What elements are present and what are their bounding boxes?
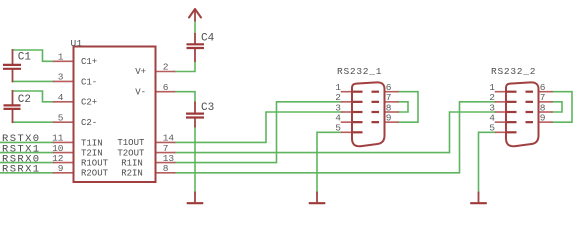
svg-text:8: 8: [163, 163, 169, 174]
svg-text:5: 5: [335, 123, 341, 134]
svg-text:R2IN: R2IN: [121, 169, 143, 179]
svg-text:1: 1: [58, 52, 64, 63]
svg-text:C1-: C1-: [81, 77, 97, 87]
svg-text:RS232_2: RS232_2: [491, 66, 536, 77]
svg-text:RSRX1: RSRX1: [2, 164, 41, 176]
svg-text:C1: C1: [18, 52, 32, 64]
svg-text:C3: C3: [201, 102, 214, 114]
svg-text:C2+: C2+: [81, 98, 97, 108]
svg-text:V-: V-: [135, 87, 146, 97]
svg-text:V+: V+: [135, 67, 146, 77]
svg-text:U1: U1: [71, 38, 83, 49]
svg-text:R1IN: R1IN: [121, 158, 143, 168]
svg-text:R2OUT: R2OUT: [81, 169, 109, 179]
svg-text:4: 4: [58, 92, 64, 103]
svg-text:9: 9: [386, 112, 392, 123]
svg-text:C1+: C1+: [81, 57, 97, 67]
svg-text:T1OUT: T1OUT: [117, 138, 145, 148]
svg-text:9: 9: [58, 163, 64, 174]
svg-text:9: 9: [540, 112, 546, 123]
svg-text:T1IN: T1IN: [81, 138, 103, 148]
svg-text:5: 5: [58, 112, 64, 123]
svg-text:T2IN: T2IN: [81, 148, 103, 158]
svg-text:T2OUT: T2OUT: [117, 148, 145, 158]
svg-text:2: 2: [163, 62, 169, 73]
svg-text:C2: C2: [18, 94, 31, 106]
svg-text:C4: C4: [201, 32, 215, 44]
svg-text:6: 6: [163, 82, 169, 93]
svg-text:C2-: C2-: [81, 118, 97, 128]
svg-text:3: 3: [58, 72, 64, 83]
svg-text:RS232_1: RS232_1: [337, 66, 382, 77]
svg-text:5: 5: [489, 123, 495, 134]
svg-text:R1OUT: R1OUT: [81, 158, 109, 168]
